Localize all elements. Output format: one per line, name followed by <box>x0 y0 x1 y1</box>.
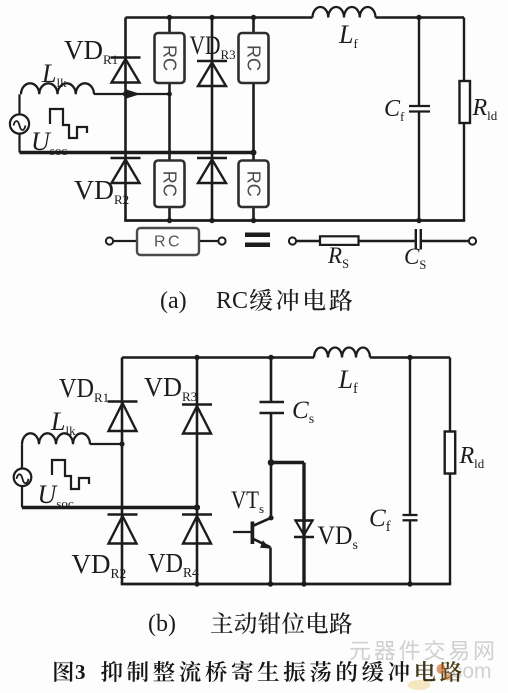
svg-text:RC: RC <box>244 45 264 71</box>
svg-text:(a): (a) <box>160 288 187 314</box>
svg-text:RC: RC <box>216 288 248 314</box>
svg-text:(b): (b) <box>148 611 176 637</box>
svg-text:RC: RC <box>244 171 264 197</box>
svg-text:RC: RC <box>160 171 180 197</box>
svg-text:VDs: VDs <box>318 521 358 553</box>
svg-text:RC: RC <box>160 45 180 71</box>
svg-text:3: 3 <box>75 660 86 684</box>
svg-text:RC: RC <box>154 234 182 251</box>
